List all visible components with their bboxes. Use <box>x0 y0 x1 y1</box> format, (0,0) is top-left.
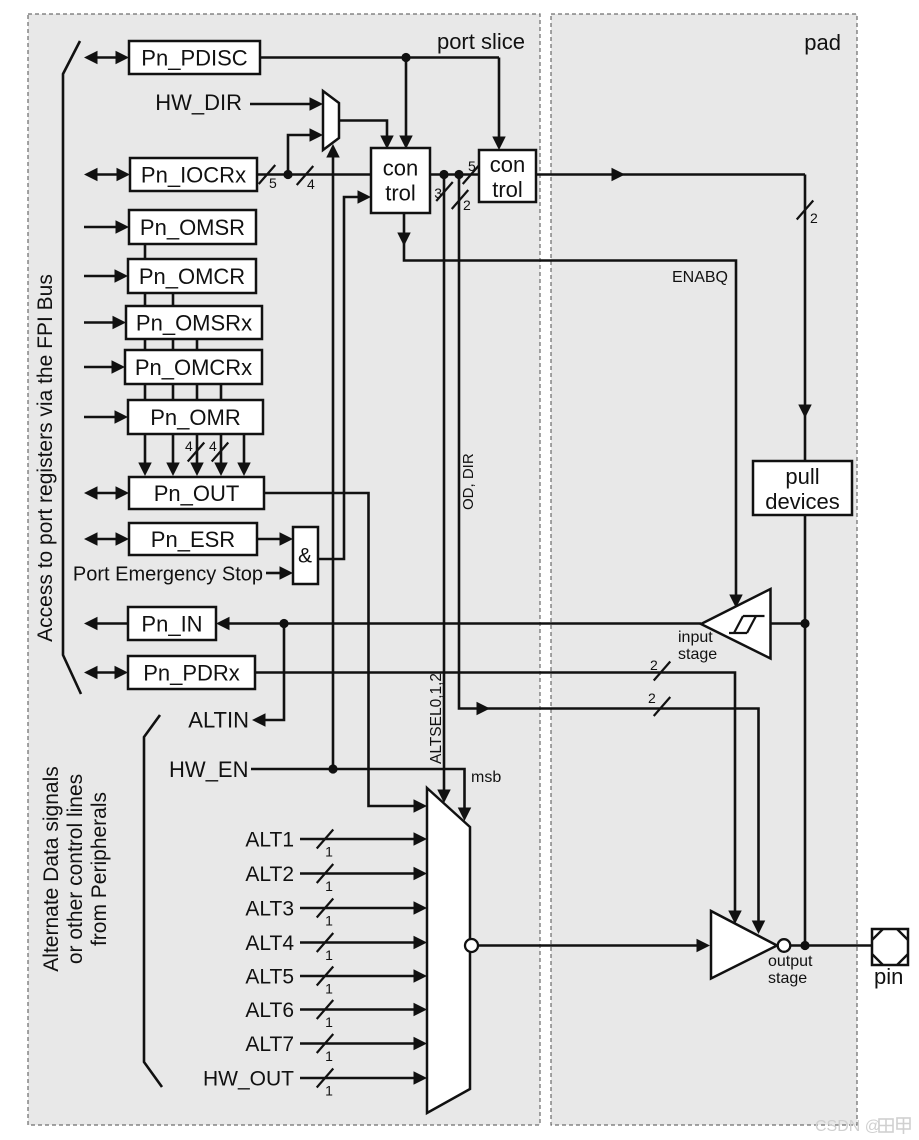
bus width slash 1 (ALT5) <box>317 967 334 997</box>
svg-text:3: 3 <box>434 185 442 201</box>
bus width slash 1 (ALT3) <box>317 899 334 929</box>
label: HW_OUT <box>203 1068 294 1091</box>
rotated label: ALTSEL0,1,2 <box>428 673 445 764</box>
wire ALT5 to output mux <box>300 969 427 983</box>
svg-text:OD, DIR: OD, DIR <box>460 453 477 510</box>
svg-text:1: 1 <box>325 1014 333 1030</box>
svg-text:2: 2 <box>650 657 658 673</box>
svg-text:stage: stage <box>678 646 717 663</box>
label: msb <box>471 769 501 786</box>
wire ALT4 to output mux <box>300 936 427 950</box>
label: ALT2 <box>245 863 294 886</box>
bus wire Pn_PDISC (bidirectional) <box>84 51 129 65</box>
bus width slash 1 (ALT1) <box>317 830 334 860</box>
node: input stage junction <box>800 619 809 628</box>
svg-text:Pn_ESR: Pn_ESR <box>151 527 235 552</box>
svg-text:msb: msb <box>471 769 501 786</box>
label: input stage <box>678 629 717 663</box>
svg-text:HW_EN: HW_EN <box>169 757 248 782</box>
svg-text:ALT4: ALT4 <box>245 932 294 955</box>
svg-text:&: & <box>298 545 312 568</box>
register Pn_IOCRx <box>130 158 257 191</box>
bus width slash 1 (ALT7) <box>317 1034 334 1064</box>
svg-text:Pn_OMCRx: Pn_OMCRx <box>135 355 252 380</box>
svg-text:pin: pin <box>874 964 903 989</box>
svg-text:1: 1 <box>325 947 333 963</box>
node: HW_EN junction <box>328 764 337 773</box>
node: ALTIN junction <box>279 619 288 628</box>
svg-text:Pn_PDRx: Pn_PDRx <box>143 661 240 686</box>
wire ALT3 to output mux <box>300 901 427 915</box>
svg-text:ALT2: ALT2 <box>245 863 294 886</box>
svg-text:stage: stage <box>768 970 807 987</box>
node: output line junction <box>800 941 809 950</box>
control block U2 <box>479 150 536 202</box>
rotated caption: Access to port registers via the FPI Bus <box>34 274 57 642</box>
peripherals bracket <box>144 715 162 1087</box>
bus width slash 2 (pad wire) <box>797 201 818 227</box>
wire Pn_PDRx to output stage <box>255 673 742 925</box>
svg-text:Pn_IOCRx: Pn_IOCRx <box>141 163 246 188</box>
svg-text:or other control lines: or other control lines <box>64 774 87 964</box>
node: ALTSEL tap <box>439 170 448 179</box>
label: output stage <box>768 953 813 987</box>
wire ALT2 to output mux <box>300 867 427 881</box>
bus width slash 1 (ALT2) <box>317 864 334 894</box>
bus width slash 2 (PDRx) <box>650 657 670 681</box>
bus wire Pn_IN (output to bus) <box>84 617 128 631</box>
bus width slash 4 (second) <box>209 438 228 462</box>
svg-text:5: 5 <box>468 158 476 174</box>
bus wire Pn_OMCRx <box>84 360 125 374</box>
label: ALT5 <box>245 966 294 989</box>
register Pn_PDRx <box>128 656 255 689</box>
svg-text:Port Emergency Stop: Port Emergency Stop <box>73 564 263 586</box>
svg-text:2: 2 <box>463 197 471 213</box>
rotated caption: from Peripherals <box>88 792 111 946</box>
svg-text:Pn_OUT: Pn_OUT <box>154 481 240 506</box>
pull devices block <box>753 461 852 515</box>
svg-text:HW_DIR: HW_DIR <box>155 90 242 115</box>
bus width slash 2 (OD/DIR) <box>452 190 471 213</box>
svg-text:from Peripherals: from Peripherals <box>88 792 111 946</box>
port slice region (dashed panel) <box>28 14 540 1125</box>
label: HW_EN <box>169 757 248 782</box>
svg-text:ENABQ: ENABQ <box>672 269 728 286</box>
svg-text:4: 4 <box>209 438 217 454</box>
pad region (dashed panel) <box>551 14 857 1125</box>
svg-text:trol: trol <box>385 181 416 206</box>
bus wire Pn_OUT (bidirectional) <box>84 486 129 500</box>
svg-text:ALT7: ALT7 <box>245 1033 294 1056</box>
svg-text:1: 1 <box>325 1083 333 1099</box>
register Pn_ESR <box>129 523 257 555</box>
bus wire Pn_PDRx (bidirectional) <box>84 666 128 680</box>
svg-text:Pn_OMCR: Pn_OMCR <box>139 264 245 289</box>
bus wire Pn_OMSR <box>84 220 129 234</box>
wire OMSR-OMCR stub <box>144 244 147 259</box>
wire mux M2 to output stage <box>478 939 710 953</box>
wire pull devices to pad line <box>804 515 807 946</box>
svg-text:2: 2 <box>810 210 818 226</box>
label: port slice <box>437 29 525 54</box>
label: ALT7 <box>245 1033 294 1056</box>
register Pn_OMR <box>128 400 263 434</box>
label: ALT6 <box>245 999 294 1022</box>
wire ALT6 to output mux <box>300 1003 427 1017</box>
svg-text:input: input <box>678 629 713 646</box>
bus width slash 1 (ALT4) <box>317 933 334 963</box>
wires OMR to OUT (5 arrows) <box>138 434 251 476</box>
svg-text:ALTSEL0,1,2: ALTSEL0,1,2 <box>428 673 445 764</box>
svg-text:ALT6: ALT6 <box>245 999 294 1022</box>
svg-text:Access to port registers via t: Access to port registers via the FPI Bus <box>34 274 57 642</box>
svg-text:con: con <box>383 156 418 181</box>
wire Pn_OUT to output mux M2 <box>264 493 427 813</box>
wire ALTSEL0,1,2 to output mux <box>437 175 451 804</box>
wire Pn_IOCRx to control U1 <box>257 173 371 176</box>
wire control U1 to control U2 <box>430 173 479 176</box>
svg-text:1: 1 <box>325 981 333 997</box>
label: ALT4 <box>245 932 294 955</box>
svg-text:pull: pull <box>785 464 819 489</box>
label: ALT3 <box>245 898 294 921</box>
mux M2 output bubble <box>465 939 478 952</box>
svg-text:Pn_OMR: Pn_OMR <box>150 405 240 430</box>
wire ALT1 to output mux <box>300 832 427 846</box>
wire input stage to pad line <box>771 622 806 625</box>
rotated label: OD, DIR <box>460 453 477 510</box>
hysteresis symbol <box>729 616 765 633</box>
watermark <box>815 1118 910 1135</box>
bus width slash 1 (ALT6) <box>317 1000 334 1030</box>
bus width slash 3 (ALTSEL) <box>434 182 453 201</box>
svg-text:4: 4 <box>307 176 315 192</box>
svg-text:ALT5: ALT5 <box>245 966 294 989</box>
wire AND gate output to control U1 <box>317 190 371 559</box>
label: Port Emergency Stop <box>73 564 263 586</box>
register Pn_OMSRx <box>126 306 262 339</box>
svg-text:1: 1 <box>325 913 333 929</box>
rotated caption: Alternate Data signals <box>40 766 63 971</box>
label: ALT1 <box>245 829 294 852</box>
bus wire Pn_OMR <box>84 410 128 424</box>
bus width slash 4 (IOCRx) <box>297 166 315 192</box>
wire HW_OUT to output mux <box>300 1071 427 1085</box>
svg-text:devices: devices <box>765 489 840 514</box>
svg-text:1: 1 <box>325 1048 333 1064</box>
input stage buffer (Schmitt trigger) <box>701 589 771 659</box>
wire OMCRx-OMR stubs <box>145 384 221 400</box>
bus width slash 5 (control U2 input) <box>463 158 480 184</box>
FPI bus bracket <box>63 41 81 694</box>
wire control U2 to pad (2-bit) <box>536 168 812 461</box>
svg-text:ALTIN: ALTIN <box>188 708 249 733</box>
bus wire Pn_OMSRx <box>84 316 126 330</box>
svg-text:4: 4 <box>185 438 193 454</box>
wire HW_EN <box>251 769 471 821</box>
output stage bubble <box>778 939 791 952</box>
node: OD/DIR tap <box>454 170 463 179</box>
pin pad symbol <box>872 929 908 965</box>
svg-text:5: 5 <box>269 175 277 191</box>
svg-text:ALT3: ALT3 <box>245 898 294 921</box>
wire ALT7 to output mux <box>300 1037 427 1051</box>
bus wire Pn_IOCRx (bidirectional) <box>84 168 130 182</box>
wire OMCR-OMSRx stubs <box>145 293 173 306</box>
mux M1 (direction select) <box>323 91 339 150</box>
rotated caption: or other control lines <box>64 774 87 964</box>
bus wire Pn_OMCR <box>84 269 128 283</box>
label: HW_DIR <box>155 90 242 115</box>
register Pn_IN <box>128 607 216 640</box>
wire PDISC to control U2 <box>492 58 506 151</box>
bus width slash 1 (HW_OUT) <box>317 1069 334 1099</box>
svg-text:Alternate Data signals: Alternate Data signals <box>40 766 63 971</box>
output mux M2 <box>427 788 470 1113</box>
wire IOCRx branch to mux M1 <box>288 128 323 174</box>
svg-text:port slice: port slice <box>437 29 525 54</box>
wire input stage to Pn_IN <box>216 617 701 631</box>
svg-text:HW_OUT: HW_OUT <box>203 1068 294 1091</box>
svg-text:Pn_IN: Pn_IN <box>141 612 202 637</box>
svg-text:1: 1 <box>325 844 333 860</box>
svg-text:output: output <box>768 953 813 970</box>
wire OD/DIR to output stage <box>459 175 765 935</box>
bus wire Pn_ESR (bidirectional) <box>84 532 129 546</box>
wire output stage to pin <box>791 944 873 947</box>
svg-text:2: 2 <box>648 690 656 706</box>
wire Port Emergency Stop to AND gate <box>266 566 293 580</box>
svg-text:ALT1: ALT1 <box>245 829 294 852</box>
svg-text:Pn_PDISC: Pn_PDISC <box>141 46 247 71</box>
wire HW_EN select up to mux M1 <box>326 144 340 769</box>
output stage driver <box>711 911 777 979</box>
node: IOCRx junction <box>283 170 292 179</box>
node: PDISC junction <box>401 53 410 62</box>
register Pn_OMSR <box>129 210 256 244</box>
register Pn_OMCRx <box>125 350 262 384</box>
AND gate <box>293 527 318 584</box>
svg-text:Pn_OMSR: Pn_OMSR <box>140 215 245 240</box>
svg-text:CSDN @: CSDN @ <box>815 1118 881 1135</box>
svg-text:Pn_OMSRx: Pn_OMSRx <box>136 311 252 336</box>
wire PDISC junction down to control U1 <box>399 58 413 150</box>
bus width slash 5 (IOCRx) <box>259 165 277 191</box>
wire OMSRx-OMCRx stubs <box>145 339 197 350</box>
wire Pn_ESR to AND gate <box>257 532 293 546</box>
label: pad <box>804 30 841 55</box>
svg-text:1: 1 <box>325 878 333 894</box>
svg-text:pad: pad <box>804 30 841 55</box>
register Pn_OUT <box>129 477 264 509</box>
wire ALTIN branch <box>252 624 284 727</box>
register Pn_PDISC <box>129 41 260 74</box>
wire HW_DIR to mux M1 <box>250 97 323 111</box>
svg-text:trol: trol <box>492 177 523 202</box>
label: ALTIN <box>188 708 249 733</box>
label: pin <box>874 964 903 989</box>
wire control U1 ENABQ output <box>397 213 743 608</box>
bus width slash 4 (first) <box>185 438 204 462</box>
wire mux M1 output to control U1 <box>339 121 394 150</box>
svg-text:con: con <box>490 152 525 177</box>
label: ENABQ <box>672 269 728 286</box>
bus width slash 2 (OD/DIR horizontal) <box>648 690 670 716</box>
control block U1 <box>371 148 430 213</box>
wire Pn_PDISC to control blocks <box>260 56 499 59</box>
register Pn_OMCR <box>128 259 256 293</box>
